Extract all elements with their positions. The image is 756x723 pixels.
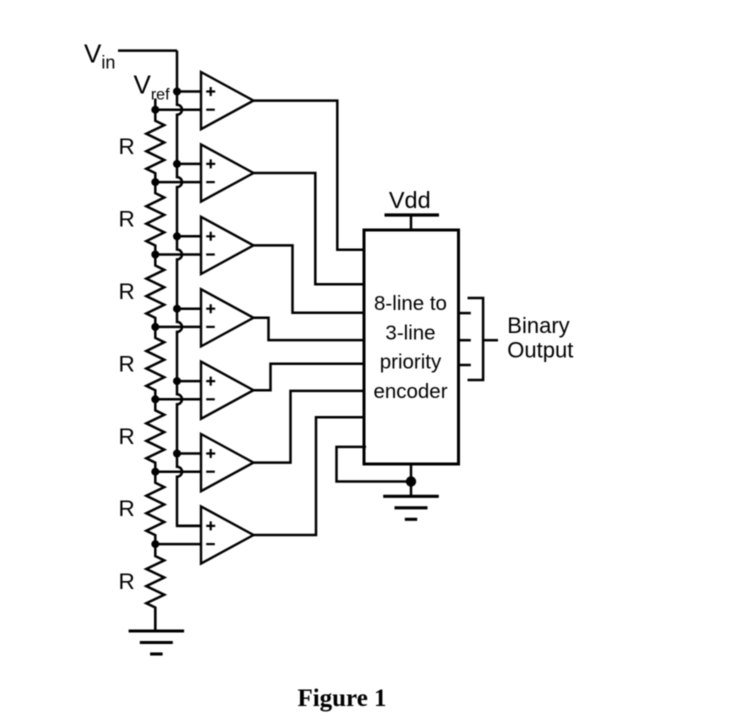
wire + input U3 (177, 235, 201, 238)
op-amp comparator U6 (201, 434, 254, 491)
svg-text:Figure 1: Figure 1 (297, 685, 386, 712)
wire output U5 to encoder input 5 (254, 364, 367, 390)
svg-text:Binary: Binary (507, 313, 569, 338)
wire binary output bit 2 (459, 364, 471, 367)
svg-text:Output: Output (507, 337, 573, 362)
minus symbol U4 (206, 326, 215, 328)
wire output U7 to encoder input 7 (254, 417, 367, 535)
wire encoder to ground (410, 464, 413, 496)
wire - input U1 (155, 108, 201, 111)
power Vdd bar (385, 213, 440, 216)
svg-text:R: R (119, 569, 135, 594)
minus symbol U3 (206, 253, 215, 255)
wire + input U6 (177, 452, 201, 455)
plus symbol U4 (206, 304, 215, 313)
svg-text:R: R (119, 207, 135, 232)
resistor R7 (146, 544, 164, 631)
svg-text:R: R (119, 351, 135, 376)
wire + input U5 (177, 380, 201, 383)
wire Vdd to encoder (410, 215, 413, 230)
svg-text:R: R (119, 279, 135, 304)
resistor R3 (146, 255, 164, 327)
plus symbol U5 (206, 377, 215, 386)
plus symbol U7 (206, 521, 215, 530)
wire bracket middle arm (483, 339, 498, 342)
resistor R5 (146, 399, 164, 471)
plus symbol U1 (206, 87, 215, 96)
node Vin tap 5 (173, 377, 181, 385)
op-amp comparator U2 (201, 144, 254, 201)
node ladder tap 1 (151, 106, 159, 114)
wire + input U7 (177, 525, 201, 528)
bracket binary output (468, 298, 484, 380)
node ladder tap 4 (151, 323, 159, 331)
svg-text:R: R (119, 496, 135, 521)
wire - input U6 (155, 470, 201, 473)
plus symbol U3 (206, 232, 215, 241)
ground encoder (383, 495, 439, 498)
wire output U2 to encoder input 2 (254, 173, 367, 284)
node ladder tap 6 (151, 468, 159, 476)
wire binary output bit 0 (459, 312, 471, 315)
minus symbol U6 (206, 471, 215, 473)
wire Vin bus vertical with crossover hops, ends at U7 + input (177, 51, 201, 526)
wire Vin horizontal (118, 49, 177, 52)
svg-text:encoder: encoder (373, 380, 447, 403)
node ladder tap 5 (151, 395, 159, 403)
op-amp comparator U3 (201, 217, 254, 274)
svg-text:Vdd: Vdd (389, 187, 431, 213)
wire + input U1 (177, 90, 201, 93)
minus symbol U5 (206, 398, 215, 400)
svg-text:R: R (119, 134, 135, 159)
minus symbol U1 (206, 109, 215, 111)
svg-text:3-line: 3-line (385, 321, 435, 344)
wire output U4 to encoder input 4 (254, 318, 367, 340)
plus symbol U2 (206, 159, 215, 168)
node Vin tap 1 (173, 88, 181, 96)
plus symbol U6 (206, 449, 215, 458)
resistor R4 (146, 327, 164, 399)
wire output U1 to encoder input 1 (254, 101, 367, 250)
resistor R1 (146, 110, 164, 182)
op-amp comparator U7 (201, 506, 254, 563)
op-amp comparator U4 (201, 289, 254, 346)
resistor R6 (146, 472, 164, 544)
wire output U3 to encoder input 3 (254, 245, 367, 312)
op-amp comparator U1 (201, 72, 254, 129)
node encoder ground junction (406, 476, 416, 486)
op-amp comparator U5 (201, 362, 254, 419)
svg-text:R: R (119, 424, 135, 449)
wire + input U4 (177, 307, 201, 310)
svg-text:priority: priority (380, 351, 442, 374)
wire - input U7 (155, 543, 201, 546)
wire Vref stub (154, 99, 157, 110)
node Vin tap 4 (173, 305, 181, 313)
resistor R2 (146, 182, 164, 254)
minus symbol U2 (206, 181, 215, 183)
wire - input U2 (155, 181, 201, 184)
wire - input U4 (155, 326, 201, 329)
minus symbol U7 (206, 543, 215, 545)
svg-text:8-line to: 8-line to (374, 292, 447, 315)
wire ground to encoder input 8 (337, 447, 412, 482)
ground ladder (129, 629, 185, 632)
node ladder tap 3 (151, 251, 159, 259)
wire + input U2 (177, 163, 201, 166)
wire - input U5 (155, 398, 201, 401)
encoder U8 8-line to 3-line priority encoder (364, 230, 459, 464)
node ladder tap 7 (151, 540, 159, 548)
node Vin tap 6 (173, 450, 181, 458)
node ladder tap 2 (151, 178, 159, 186)
wire ladder to ground (154, 608, 157, 632)
wire - input U3 (155, 253, 201, 256)
node Vin tap 2 (173, 160, 181, 168)
wire output U6 to encoder input 6 (254, 391, 367, 463)
wire binary output bit 1 (459, 339, 471, 342)
node Vin tap 3 (173, 232, 181, 240)
